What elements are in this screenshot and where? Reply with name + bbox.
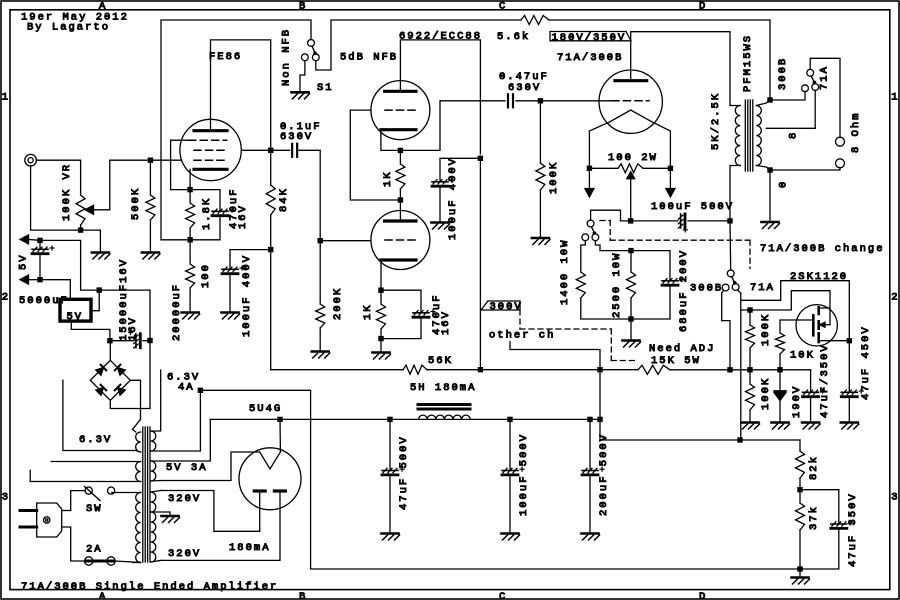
svg-text:100K VR: 100K VR	[61, 163, 73, 221]
wire NonNFB contact to ground	[300, 61, 305, 92]
svg-text:16V: 16V	[127, 316, 139, 341]
B+ bypass junction	[478, 156, 483, 161]
junction divider mid	[797, 487, 802, 492]
ground under 100uF 400V	[432, 221, 449, 224]
svg-text:47uF 500V: 47uF 500V	[398, 435, 410, 510]
svg-text:190V: 190V	[791, 385, 803, 418]
cap 100uF 400V driver	[432, 181, 448, 183]
bridge negative lead	[110, 343, 150, 409]
ground under 100uF 400V EF86	[222, 311, 239, 314]
5U4G output lead	[279, 419, 281, 452]
filament supply arrow left	[588, 168, 590, 188]
resistor 2500 10W	[595, 241, 631, 272]
wire 5V plus to regulator input	[40, 240, 99, 290]
cap 5000uF	[39, 240, 41, 249]
cap 680uF 200V	[631, 251, 670, 281]
driver B+ riser	[479, 158, 481, 369]
svg-text:300B: 300B	[777, 57, 789, 90]
junction driver B+ tap	[478, 367, 483, 372]
cathode resistor 1K lower	[380, 290, 382, 304]
svg-text:47uF/350V: 47uF/350V	[819, 343, 831, 418]
filament left lead to 5V winding	[161, 452, 260, 481]
svg-text:8: 8	[788, 131, 800, 139]
svg-text:47uF 350V: 47uF 350V	[847, 492, 859, 567]
bypass cap 470uF 16V	[190, 190, 220, 212]
dashed linkage 71A/300B change	[600, 220, 610, 222]
arrow 5V plus	[20, 235, 29, 244]
wire cathode node to bias switch pole	[591, 210, 631, 221]
junction divider x740	[737, 437, 742, 442]
cap 100uF 400V EF86	[230, 250, 271, 270]
svg-text:180V/350V: 180V/350V	[552, 32, 627, 44]
junction 300B feed	[727, 367, 732, 372]
svg-text:C: C	[499, 1, 507, 13]
cap 15000uF 16V	[110, 340, 133, 342]
svg-text:5V: 5V	[67, 311, 84, 323]
speaker select pole	[807, 69, 814, 76]
EF86 g3 tie to cathode	[171, 140, 191, 189]
wire 300B contact to rail	[722, 291, 730, 370]
select contact 71A	[732, 284, 739, 291]
wire wiper to grid line	[94, 160, 151, 210]
junction 1K lower bottom	[378, 336, 383, 341]
svg-text:2: 2	[891, 292, 899, 304]
junction smoothing cap right	[147, 338, 152, 343]
tube V2a 6922 upper triode	[371, 81, 430, 140]
svg-text:D: D	[699, 1, 707, 13]
select switch pole	[727, 270, 734, 277]
S1 lever	[312, 46, 315, 54]
junction 10K bottom	[777, 367, 782, 372]
svg-text:By Lagarto: By Lagarto	[27, 22, 110, 34]
wire 0.47uF to output grid node	[516, 100, 540, 102]
5U4G filament V	[260, 452, 281, 469]
svg-text:1: 1	[2, 92, 10, 104]
wire plate to OPT primary	[631, 32, 730, 104]
junction PSU feed	[597, 367, 602, 372]
junction OPT bottom node	[727, 218, 732, 223]
bridge rectifier diamond	[90, 360, 130, 400]
wiper to cathode node	[630, 179, 632, 221]
svg-text:84K: 84K	[278, 187, 290, 212]
bridge AC lead upper	[130, 380, 140, 419]
cathode cap 100uF 500V to B+	[631, 220, 678, 222]
speaker select lever	[811, 76, 815, 83]
junction 5U4G output	[277, 417, 282, 422]
speaker select contact 71A	[812, 84, 819, 91]
OPT primary coil	[735, 106, 740, 166]
svg-text:1400 10W: 1400 10W	[559, 239, 571, 305]
FET gate bar	[812, 315, 815, 335]
6.3V return lead	[151, 390, 201, 451]
OPT secondary coil	[756, 106, 761, 166]
wire NFB contact to 5.6k line	[316, 20, 521, 70]
wire 0 to ground	[769, 170, 771, 222]
svg-text:5K/2.5K: 5K/2.5K	[710, 92, 722, 150]
junction lower plate node	[398, 197, 403, 202]
secondary top lead	[756, 100, 770, 106]
g2 strap to plate node	[241, 149, 270, 151]
svg-text:16V: 16V	[440, 310, 452, 335]
divider feed wire	[600, 370, 800, 440]
HV center tap ground	[151, 512, 170, 516]
tube V3 71A/300B	[599, 70, 662, 133]
bias contact 2500 (71A)	[592, 234, 599, 241]
filament V shape	[610, 110, 652, 122]
wire cap to SRPP grid	[297, 150, 320, 240]
upper cathode lead	[381, 130, 401, 151]
svg-text:2500 10W: 2500 10W	[611, 252, 623, 318]
junction FET source	[847, 338, 852, 343]
plug to fuse	[62, 510, 71, 512]
NFB wire from S1 pole to EF86 cathode	[161, 20, 311, 240]
junction 200uF filter	[587, 417, 592, 422]
hum pot wiper arrow	[627, 172, 635, 179]
fuse 2A	[85, 557, 93, 565]
wire grid node to lower triode	[320, 240, 371, 242]
svg-text:82k: 82k	[808, 455, 820, 480]
svg-text:6922/ECC88: 6922/ECC88	[399, 31, 482, 43]
regulator bottom pin	[71, 321, 110, 341]
junction 5V plus	[37, 238, 42, 243]
FET channel dashes	[817, 307, 820, 314]
wire from 71A bias select	[740, 310, 742, 440]
regulator right pin	[91, 290, 99, 311]
ground under 47uF 450V	[841, 421, 858, 424]
wire 5.6k to OPT secondary	[549, 20, 770, 100]
svg-text:B: B	[299, 1, 307, 13]
wire jack ground side	[31, 166, 81, 230]
bias switch pole	[587, 220, 594, 227]
junction lower cathode	[378, 288, 383, 293]
svg-text:5V 3A: 5V 3A	[166, 462, 208, 474]
anode right lead	[161, 493, 280, 560]
heater bias bus	[200, 390, 800, 569]
HV bottom lead	[151, 560, 161, 562]
dashed 300V to adjust	[519, 310, 521, 329]
wire jack to pot top	[36, 160, 80, 195]
svg-text:5U4G: 5U4G	[249, 403, 282, 415]
svg-text:1: 1	[891, 92, 899, 104]
rail segment	[427, 369, 638, 371]
svg-text:C: C	[499, 591, 507, 600]
junction pot bottom	[78, 227, 83, 232]
svg-text:71A: 71A	[819, 65, 831, 90]
primary top lead	[730, 104, 740, 106]
svg-text:Non NFB: Non NFB	[281, 28, 293, 86]
svg-text:320V: 320V	[168, 548, 201, 560]
EF86 plate load 84K riser	[270, 150, 272, 185]
svg-text:5.6k: 5.6k	[497, 31, 530, 43]
svg-text:8 Ohm: 8 Ohm	[850, 111, 862, 153]
lower cathode lead	[380, 260, 382, 290]
filament supply arrow right	[669, 168, 671, 188]
wire 0 to speaker -	[770, 168, 840, 170]
T1 primary winding	[136, 493, 141, 563]
wire to 100uF 400V	[440, 158, 480, 181]
svg-text:16V: 16V	[237, 204, 249, 229]
secondary bottom lead	[756, 166, 770, 171]
junction drain node	[747, 307, 752, 312]
junction upper cathode	[398, 148, 403, 153]
bridge diode arrows	[96, 368, 104, 376]
ground under 47uF/350V	[802, 421, 819, 424]
svg-text:71A/300B change: 71A/300B change	[760, 243, 885, 255]
ground under 100	[182, 311, 199, 314]
primary top lead to switch	[112, 492, 141, 494]
select lever	[732, 277, 735, 284]
svg-text:S1: S1	[317, 82, 334, 94]
svg-text:2A: 2A	[86, 544, 103, 556]
junction bridge plus	[107, 338, 112, 343]
FET drain stub	[819, 307, 830, 309]
hum balance resistor 100 2W	[589, 167, 618, 169]
wire to 100K drain node	[741, 300, 750, 310]
FET gate lead	[780, 320, 813, 333]
junction 6.3V	[198, 388, 203, 393]
tube V1 FE86 pentode	[180, 119, 241, 180]
bridge positive lead	[109, 343, 111, 360]
junction 5V minus	[37, 277, 42, 282]
plug prongs	[20, 509, 37, 512]
bridge AC lead lower	[63, 380, 136, 450]
wire pole to speaker jack	[810, 58, 840, 137]
junction cathode node	[628, 218, 633, 223]
svg-text:680uF 200V: 680uF 200V	[678, 249, 690, 332]
T1 heater winding left lower	[136, 462, 141, 482]
coupling cap 0.47uF 630V	[507, 94, 509, 107]
svg-text:B: B	[299, 591, 307, 600]
svg-text:10K: 10K	[790, 350, 815, 362]
select contact 300B	[722, 284, 729, 291]
wire secondary to select contact	[770, 92, 805, 101]
rail resistor 15K 5W	[638, 365, 670, 374]
ground under zener	[772, 421, 789, 424]
transistor Q1 2SK1120	[796, 305, 837, 346]
junction output grid node	[538, 98, 543, 103]
svg-text:200uF 500V: 200uF 500V	[598, 433, 610, 516]
ground under 500K	[142, 251, 159, 254]
switch to plug	[71, 491, 85, 511]
junction plate node	[268, 148, 273, 153]
svg-text:2SK1120: 2SK1120	[790, 271, 848, 283]
svg-text:1K: 1K	[382, 170, 394, 187]
mains switch SW	[85, 487, 92, 494]
rail end cap 47uF/350V	[810, 370, 812, 393]
5U4G anode bars	[254, 489, 265, 492]
ground under OPT	[762, 221, 779, 224]
svg-text:5H 180mA: 5H 180mA	[410, 382, 476, 394]
svg-text:71A: 71A	[750, 282, 775, 294]
svg-text:300B: 300B	[690, 283, 723, 295]
junction secondary bottom	[767, 167, 772, 172]
resistor 100K bleed	[749, 370, 751, 384]
filament legs	[589, 122, 610, 169]
junction PSU rail end	[597, 417, 602, 422]
mains plug	[37, 503, 62, 537]
svg-text:SW: SW	[86, 503, 103, 515]
svg-text:5V: 5V	[18, 253, 30, 270]
ground under pot	[92, 251, 109, 254]
switch S1 contact NFB	[312, 54, 319, 61]
drain wire	[750, 291, 830, 310]
zener 190V	[779, 370, 781, 392]
resistor 37k	[799, 490, 801, 503]
svg-text:20000uF: 20000uF	[171, 283, 183, 341]
fuse to primary bottom	[115, 561, 141, 563]
PSU B+ rail	[210, 418, 600, 420]
junction 84K bypass tap	[268, 247, 273, 252]
ground under S1	[292, 91, 309, 94]
choke 5H winding	[419, 415, 471, 419]
plate lead with flag	[630, 32, 632, 81]
bias switch lever	[592, 227, 595, 234]
wire grid node to EF86 grid	[150, 159, 181, 161]
source cap 47uF 450V	[848, 341, 850, 393]
speaker terminal -	[836, 159, 845, 168]
svg-text:100uF 400V: 100uF 400V	[447, 157, 459, 240]
svg-text:100K: 100K	[548, 161, 560, 194]
junction 100K bottom	[747, 367, 752, 372]
junction filament right	[668, 166, 673, 171]
svg-text:3: 3	[2, 492, 10, 504]
svg-text:100uF 500V: 100uF 500V	[651, 201, 734, 213]
junction regulator common	[97, 287, 102, 292]
choke 5H core	[418, 403, 470, 406]
rail right segment	[670, 369, 811, 371]
svg-text:200K: 200K	[332, 287, 344, 320]
regulator top pin	[40, 280, 70, 300]
resistor 100K fet	[749, 310, 751, 325]
tube V4 5U4G	[239, 448, 301, 510]
OPT core	[744, 100, 746, 171]
svg-text:5dB NFB: 5dB NFB	[340, 52, 398, 64]
main B+ rail	[271, 369, 403, 371]
svg-text:5000uF: 5000uF	[19, 295, 69, 307]
speaker select contact 300B	[802, 85, 809, 92]
svg-text:other ch: other ch	[489, 330, 555, 342]
svg-text:3: 3	[891, 492, 899, 504]
SRPP resistor 1K upper	[399, 150, 401, 164]
feedback resistor 5.6k	[521, 16, 549, 25]
grid leak 100K output	[539, 101, 541, 163]
svg-text:630V: 630V	[508, 82, 541, 94]
pot bottom lead	[80, 225, 82, 230]
svg-text:FE86: FE86	[209, 51, 242, 63]
svg-text:500K: 500K	[130, 187, 142, 220]
cathode resistor 1.8K	[189, 190, 191, 203]
svg-text:1K: 1K	[362, 303, 374, 320]
pot wiper arrow	[85, 205, 94, 214]
anode left lead	[161, 491, 260, 532]
upper plate lead to B+	[400, 40, 480, 154]
svg-text:2: 2	[2, 292, 10, 304]
svg-text:Need ADJ: Need ADJ	[649, 343, 715, 355]
junction secondary top	[767, 97, 772, 102]
resistor 100 EF86 cathode	[189, 240, 191, 264]
resistor 1400 10W	[581, 241, 586, 272]
EF86 plate lead to top	[211, 40, 271, 150]
T1 6.3V winding left upper	[136, 432, 141, 452]
svg-text:320V: 320V	[168, 493, 201, 505]
HV top lead	[151, 491, 161, 493]
junction bias resistors	[628, 316, 633, 321]
bias contact 1400 (300B)	[582, 234, 589, 241]
T1 6.3V winding right upper	[151, 431, 156, 451]
svg-text:4A: 4A	[178, 382, 195, 394]
svg-text:180mA: 180mA	[229, 542, 271, 554]
svg-text:37k: 37k	[808, 505, 820, 530]
wire pot bottom to ground	[81, 230, 101, 252]
cap 100uF 500V filter	[509, 419, 511, 470]
ground under 100K	[532, 237, 549, 240]
junction filament left	[587, 166, 592, 171]
FET source stub	[819, 340, 850, 342]
net flag 180V/350V	[550, 32, 631, 41]
coupling cap 0.1uF 630V	[271, 149, 290, 151]
ground under divider	[792, 576, 809, 579]
svg-text:100: 100	[200, 263, 212, 288]
EF86 cathode lead	[189, 169, 191, 189]
svg-text:100K: 100K	[760, 313, 772, 346]
bypass cap 470uF 16V lower	[381, 290, 421, 313]
cap 200uF 500V filter	[589, 419, 591, 470]
lower plate lead	[399, 200, 401, 221]
junction 1.8K bottom	[187, 237, 192, 242]
grid wire to output tube	[540, 100, 612, 102]
junction 2500 top	[628, 248, 633, 253]
ground under 100K bleed	[742, 421, 759, 424]
wire OPT bottom to select pole	[729, 221, 732, 270]
rail resistor 56K	[403, 365, 427, 374]
junction divider bottom	[797, 566, 802, 571]
speaker terminal +	[836, 137, 845, 146]
FET body arrow	[829, 308, 831, 325]
svg-text:1.8K: 1.8K	[201, 197, 213, 230]
arrow 5V minus	[29, 279, 41, 281]
cap 47uF 350V divider	[800, 490, 839, 524]
svg-text:100 2W: 100 2W	[608, 152, 658, 164]
switch S1 pole	[308, 40, 315, 47]
svg-text:71A/300B: 71A/300B	[557, 52, 623, 64]
input jack J1	[25, 154, 37, 166]
tube V2b 6922 lower triode	[371, 211, 430, 270]
svg-text:100uF 400V: 100uF 400V	[241, 254, 253, 337]
primary bottom lead	[730, 166, 740, 221]
wire 71A contact to FET source route	[738, 281, 850, 341]
regulator 5V module	[60, 299, 91, 321]
T1 5V winding	[151, 461, 156, 481]
secondary 8 tap	[766, 90, 815, 128]
svg-text:100K: 100K	[760, 377, 772, 410]
svg-text:56K: 56K	[428, 355, 453, 367]
cap 47uF 500V	[389, 419, 391, 470]
svg-text:630V: 630V	[280, 131, 313, 143]
resistor 82k	[799, 440, 801, 451]
grid leak 200K	[319, 241, 321, 304]
svg-text:71A/300B Single Ended Amplifie: 71A/300B Single Ended Amplifier	[21, 581, 278, 593]
net flag 300V	[481, 301, 520, 310]
grid leak 500K	[149, 160, 151, 195]
svg-text:PFM15WS: PFM15WS	[742, 34, 754, 92]
ground under 1K	[373, 351, 390, 354]
svg-text:15K 5W: 15K 5W	[651, 355, 701, 367]
wire upper cathode to follower output	[400, 101, 505, 151]
junction EF86 cathode	[187, 187, 192, 192]
svg-text:100uF 500V: 100uF 500V	[518, 433, 530, 516]
svg-text:6.3V: 6.3V	[79, 434, 112, 446]
other channel feed	[510, 342, 600, 370]
